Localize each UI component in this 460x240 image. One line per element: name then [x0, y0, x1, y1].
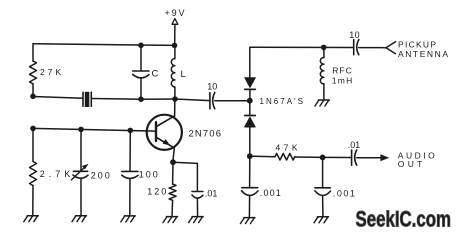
resistor 27K	[30, 61, 37, 84]
svg-text:10: 10	[207, 82, 217, 92]
wire emitter vertical	[173, 148, 174, 160]
svg-text:C: C	[152, 69, 159, 80]
node RFC tap	[321, 45, 327, 51]
diode D2 1N67A lower	[245, 116, 256, 128]
wire C top lead	[140, 45, 142, 71]
ground RFC	[315, 100, 330, 106]
wire left rail lower	[32, 128, 34, 161]
svg-text:L: L	[181, 69, 186, 80]
wire 27K to node	[32, 84, 34, 97]
svg-text:.01: .01	[205, 188, 218, 198]
ground .001 first	[240, 218, 255, 224]
wire base bus	[33, 128, 156, 131]
node crystal/C junction	[138, 96, 144, 102]
svg-text:2.7K: 2.7K	[40, 169, 71, 179]
wire D2 to audio node	[249, 127, 251, 156]
svg-text:100: 100	[139, 170, 158, 180]
node diode detector junction	[247, 98, 253, 104]
wire bypass to ground	[196, 199, 198, 217]
wire node A to 47K	[250, 155, 275, 158]
crystal XTAL	[83, 92, 91, 107]
node tank/collector junction	[172, 96, 178, 102]
ground 120	[163, 217, 178, 223]
node 200 tap	[78, 127, 84, 133]
wire 47K to node B	[295, 156, 323, 158]
node top rail / L / +9V	[172, 43, 178, 49]
svg-text:10: 10	[349, 30, 360, 40]
wire +9V to top rail	[174, 24, 176, 45]
wire crystal left lead	[33, 97, 83, 99]
wire 100 to ground	[129, 179, 131, 216]
wire RFC top lead	[323, 47, 325, 57]
capacitor .001 second	[315, 188, 331, 196]
wire collector node to coupling cap	[175, 99, 210, 101]
capacitor C	[133, 71, 149, 78]
wire C bottom lead	[140, 78, 142, 100]
wire 200 top lead	[80, 129, 82, 170]
wire top rail	[33, 44, 175, 46]
svg-text:.001: .001	[260, 188, 281, 198]
wire node A down	[249, 156, 251, 187]
wire node B to audio cap	[323, 156, 352, 158]
wire emitter node to bypass cap	[173, 162, 197, 191]
node 100 tap	[128, 128, 134, 134]
svg-text:SeekIC.com: SeekIC.com	[356, 207, 452, 232]
wire .001 first to ground	[248, 197, 250, 218]
capacitor 10 coupling	[210, 93, 215, 109]
capacitor .01 emitter bypass	[192, 192, 203, 199]
wire L top lead	[174, 45, 176, 58]
node top rail / C	[138, 43, 144, 49]
svg-text:+9V: +9V	[165, 8, 185, 18]
+9V supply terminal	[172, 19, 178, 25]
node emitter junction	[170, 159, 176, 165]
svg-text:47K: 47K	[276, 143, 298, 153]
svg-text:OUT: OUT	[398, 159, 423, 169]
wire RFC bottom lead	[323, 84, 325, 100]
wire .001 second to ground	[322, 197, 324, 217]
node base bus / left rail	[30, 126, 36, 132]
ground bypass	[189, 217, 204, 223]
capacitor 100	[122, 171, 138, 178]
wire 120 to ground	[171, 200, 174, 216]
wire left rail upper	[32, 44, 34, 61]
node audio junction B	[320, 155, 326, 161]
ground .001 second	[314, 217, 329, 223]
wire 100 top lead	[129, 130, 131, 171]
wire cap to antenna chevron	[359, 47, 386, 49]
capacitor .001 first	[242, 188, 259, 196]
capacitor 10 antenna	[354, 40, 359, 55]
arrow audio out	[380, 154, 389, 161]
svg-text:2N706: 2N706	[189, 129, 222, 140]
inductor RFC 1mH	[320, 58, 324, 84]
ground left rail	[24, 216, 39, 222]
wire node to D2	[249, 101, 251, 116]
wire audio cap to arrow	[357, 157, 381, 159]
ground 100	[121, 216, 136, 222]
svg-text:.001: .001	[333, 188, 355, 198]
variable capacitor 200	[71, 164, 88, 180]
wire crystal right lead	[91, 98, 141, 101]
svg-text:120: 120	[147, 187, 166, 197]
wire tank bus	[141, 98, 175, 100]
capacitor .01 audio coupling	[352, 150, 357, 165]
wire 200 to ground	[80, 179, 82, 216]
svg-text:200: 200	[91, 170, 110, 180]
node 27K/crystal junction	[30, 94, 36, 100]
node audio junction A	[247, 153, 253, 159]
svg-text:.01: .01	[348, 140, 361, 150]
wire collector vertical	[174, 99, 176, 116]
resistor 120	[169, 184, 176, 200]
svg-text:ANTENNA: ANTENNA	[398, 49, 448, 59]
diode D1 1N67A upper	[245, 78, 256, 90]
wire D1 cathode to node	[249, 90, 251, 99]
svg-text:1N67A'S: 1N67A'S	[260, 97, 304, 106]
svg-text:RFC: RFC	[332, 65, 352, 75]
wire emitter node to 120	[172, 162, 174, 184]
wire node B down	[322, 157, 324, 187]
wire cap to diode node	[215, 100, 250, 102]
ground 200	[72, 216, 87, 222]
wire 2.7K to ground	[32, 186, 34, 216]
wire top right rail	[250, 47, 353, 77]
inductor L	[171, 59, 175, 87]
transistor Q1 2N706	[147, 115, 182, 150]
resistor 47K	[275, 153, 295, 160]
svg-text:PICKUP: PICKUP	[398, 40, 436, 50]
resistor 2.7K	[30, 162, 37, 186]
wire L bottom lead	[174, 87, 176, 99]
svg-text:1mH: 1mH	[332, 75, 353, 85]
antenna connector chevron	[386, 42, 396, 54]
svg-text:27K: 27K	[40, 67, 61, 77]
